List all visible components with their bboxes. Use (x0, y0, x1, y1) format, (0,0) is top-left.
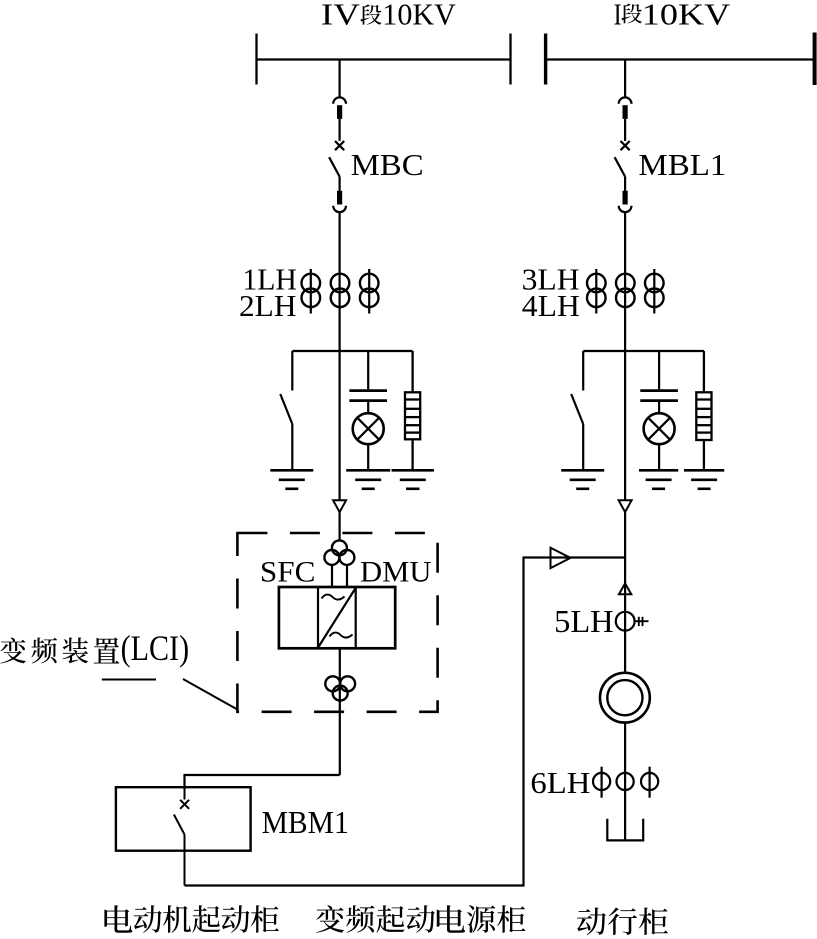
current transformer 3LH/4LH phase B (616, 274, 635, 307)
label IV段10KV (321, 0, 456, 32)
svg-text:4LH: 4LH (522, 288, 580, 323)
wire LCI output to MBM1 (185, 775, 340, 787)
ground (right capacitor) (639, 470, 678, 489)
motor M (double circle) (600, 673, 650, 723)
busbar I section 10KV (546, 33, 816, 86)
svg-text:IV: IV (321, 0, 361, 32)
svg-text:10KV: 10KV (382, 0, 456, 32)
frequency converter unit (rectifier/inverter) (279, 587, 395, 648)
wires transformer to converter (332, 565, 347, 587)
wire arrow to SFC transformer (339, 512, 341, 541)
resistor right (arrester) (696, 351, 711, 470)
plug-in connector arrow (left feeder, down) (333, 500, 346, 512)
current transformer 6LH phase A (593, 767, 610, 798)
svg-text:MBC: MBC (351, 147, 424, 182)
current transformer 1LH/2LH phase C (360, 269, 379, 314)
ground (left capacitor) (346, 470, 390, 489)
label 变频装置 (0, 637, 119, 663)
earthing switch right (571, 351, 583, 470)
resistor left (arrester) (405, 351, 420, 470)
ground (right earthing switch) (561, 470, 604, 489)
current transformer 6LH phase C (641, 767, 658, 798)
cable termination bracket (607, 819, 643, 841)
cabinet box MBM1 (116, 787, 251, 851)
ground (right resistor) (684, 470, 724, 489)
tee wire left branch (292, 350, 412, 352)
current transformer 6LH phase B (617, 773, 634, 790)
current transformer 1LH/2LH phase A (302, 269, 321, 314)
busbar IV section 10KV (257, 34, 511, 85)
caption 变频起动电源柜 (316, 905, 525, 933)
earthing switch left (280, 351, 292, 470)
ground (left earthing switch) (270, 470, 313, 489)
wire converter to output transformer (339, 648, 341, 775)
svg-text:10KV: 10KV (642, 0, 731, 32)
label I段10KV (614, 0, 731, 32)
current transformer 3LH/4LH phase C (645, 269, 664, 314)
caption 动行柜 (577, 907, 668, 935)
secondary tap mark at 5LH (636, 617, 649, 626)
surge capacitor right (640, 351, 678, 470)
plug-in connector arrow (right feeder, down) (619, 500, 632, 512)
circuit breaker MBL1 (withdrawable) (615, 60, 632, 270)
input transformer windings (SFC) (324, 540, 354, 565)
svg-text:MBM1: MBM1 (262, 804, 349, 840)
tee wire right branch (583, 350, 704, 352)
current transformer 1LH/2LH phase B (331, 274, 350, 307)
current transformer 5LH (616, 612, 635, 631)
svg-text:(LCI): (LCI) (121, 628, 190, 668)
wire motor to 6LH (624, 723, 626, 841)
dashed enclosure 变频装置 LCI (237, 533, 437, 712)
svg-text:5LH: 5LH (554, 603, 614, 639)
output transformer windings (DMU) (325, 676, 355, 700)
switch MBM1 contact (174, 787, 189, 885)
current transformer 3LH/4LH phase A (587, 269, 606, 314)
caption 电动机起动柜 (104, 905, 278, 933)
svg-text:2LH: 2LH (239, 288, 297, 323)
plug-in connector arrow (up) (619, 583, 631, 594)
surge capacitor left (349, 351, 387, 470)
svg-text:DMU: DMU (360, 556, 432, 589)
wire MBL1 to tee (624, 269, 626, 500)
circuit breaker MBC (withdrawable) (329, 60, 346, 270)
wire MBC to tee (339, 269, 341, 500)
ground (left resistor) (392, 470, 434, 489)
feed arrow (right, into motor line) (551, 548, 571, 568)
svg-text:6LH: 6LH (530, 765, 590, 800)
wire junction to motor (624, 512, 626, 673)
leader line to LCI box (102, 679, 238, 710)
svg-text:SFC: SFC (260, 556, 316, 589)
svg-text:MBL1: MBL1 (638, 147, 726, 182)
wire MBM1 to motor feeder (185, 558, 625, 886)
svg-text:I: I (614, 0, 622, 32)
